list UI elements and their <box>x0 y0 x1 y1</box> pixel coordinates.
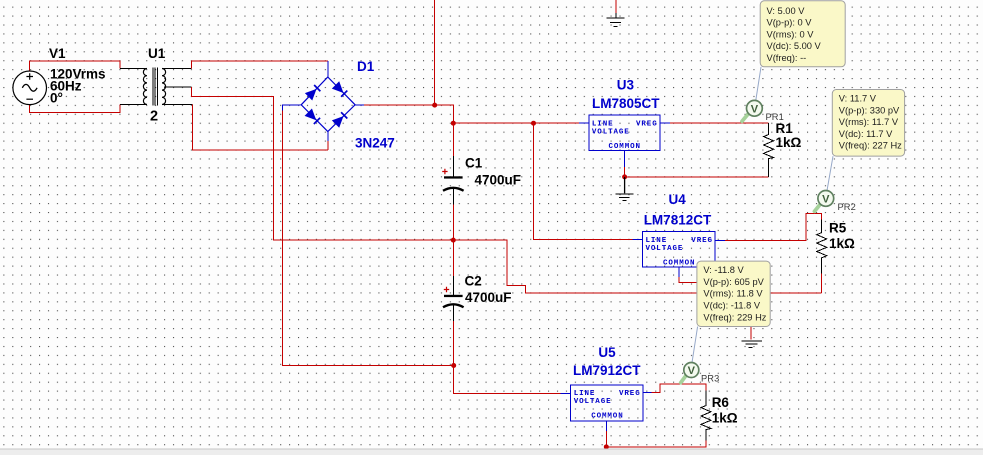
capacitor C2 <box>443 287 464 308</box>
wire U3 output to R1 top <box>660 122 670 124</box>
svg-text:COMMON: COMMON <box>663 260 695 268</box>
svg-text:4700uF: 4700uF <box>475 173 522 188</box>
junction at C1 top / U3 feed <box>451 121 456 126</box>
resistor R6 <box>701 391 711 441</box>
svg-text:1kΩ: 1kΩ <box>776 135 802 150</box>
transformer U1 <box>143 68 165 106</box>
junction at C1/C2 midpoint on common rail <box>451 238 456 243</box>
voltage regulator U5 LM7912CT <box>571 385 644 421</box>
svg-text:PR1: PR1 <box>766 112 784 122</box>
resistor R1 <box>764 123 774 177</box>
probe PR3 <box>681 363 699 383</box>
probe PR2 <box>815 191 834 212</box>
junction at U4 feed branch <box>531 121 536 126</box>
svg-text:V: 11.7 V: V: 11.7 V <box>839 94 877 104</box>
resistor R5 <box>817 220 827 274</box>
svg-text:LINE: LINE <box>646 237 668 245</box>
wire U4 common pin <box>678 267 680 277</box>
svg-text:VREG: VREG <box>691 237 713 245</box>
diode D1 bottom-right (points to right corner) <box>332 112 348 128</box>
svg-text:LM7912CT: LM7912CT <box>573 363 641 378</box>
wire top ground stem <box>615 0 617 13</box>
wire positive rail stub to top edge <box>434 0 436 105</box>
svg-text:V(rms): 0 V: V(rms): 0 V <box>767 29 815 39</box>
svg-text:VREG: VREG <box>636 120 658 128</box>
wire ground stem below PR3 measurement box <box>750 327 752 340</box>
svg-text:C2: C2 <box>465 273 482 288</box>
wire R5 bottom to common rail <box>821 274 823 293</box>
svg-text:4700uF: 4700uF <box>465 290 512 305</box>
svg-text:V(rms): 11.8 V: V(rms): 11.8 V <box>703 289 763 299</box>
wire C1 bottom lead <box>452 189 454 205</box>
wire bridge D1 positive output rail to C1 / U3 / U4 feed <box>355 104 364 106</box>
diode D1 bottom-left (points to bottom corner) <box>305 109 321 125</box>
svg-text:V1: V1 <box>49 46 66 61</box>
svg-text:V: -11.8 V: V: -11.8 V <box>703 265 744 275</box>
bridge rectifier D1 <box>301 77 355 132</box>
wire R6 bottom to U5 common junction <box>606 441 706 447</box>
svg-text:1kΩ: 1kΩ <box>712 410 738 425</box>
voltage regulator U4 LM7812CT <box>642 232 715 268</box>
junction at U5 common / R6 bottom <box>604 444 609 449</box>
svg-text:V(dc): -11.8 V: V(dc): -11.8 V <box>703 301 760 311</box>
wire V1 top to U1 primary <box>30 61 120 71</box>
wire C2 top lead <box>452 240 454 276</box>
junction at U3 common / R1 bottom <box>622 174 627 179</box>
svg-text:R6: R6 <box>712 395 730 410</box>
svg-text:R1: R1 <box>776 121 794 136</box>
wire U4 output to R5 top <box>715 239 725 241</box>
svg-text:V(p-p): 330 pV: V(p-p): 330 pV <box>839 105 900 115</box>
svg-text:R5: R5 <box>829 220 847 235</box>
AC source V1 <box>13 71 47 105</box>
svg-text:3N247: 3N247 <box>355 135 395 150</box>
connector from measurement box 2 to probe PR2 <box>827 156 833 190</box>
svg-text:V(p-p): 0 V: V(p-p): 0 V <box>767 18 813 28</box>
svg-text:PR2: PR2 <box>838 202 856 212</box>
svg-text:V: V <box>751 103 759 115</box>
junction at C2 bottom on negative rail <box>451 363 456 368</box>
measurement box PR2 readings <box>832 90 904 157</box>
svg-text:D1: D1 <box>357 59 375 74</box>
svg-text:V(freq): --: V(freq): -- <box>767 53 807 63</box>
wire U3 common pin <box>624 150 626 167</box>
wire C2 bottom lead <box>452 306 454 322</box>
wire U1 secondary top to bridge D1 top <box>162 68 192 70</box>
svg-text:V(dc): 5.00 V: V(dc): 5.00 V <box>767 41 822 51</box>
bottom scrollbar strip <box>0 449 983 455</box>
svg-text:V: V <box>688 365 696 377</box>
wire U5 output to R6 top <box>643 391 652 393</box>
diode D1 top-right (points to right corner) <box>332 81 348 97</box>
svg-text:U3: U3 <box>617 78 635 93</box>
svg-text:LINE: LINE <box>592 120 614 128</box>
svg-text:LINE: LINE <box>574 390 596 398</box>
ground at top edge <box>607 18 625 27</box>
svg-text:0°: 0° <box>50 90 63 105</box>
connector from measurement box 3 to probe PR3 <box>692 327 698 363</box>
probe PR1 <box>742 100 762 121</box>
diode D1 top-left (points to top corner) <box>305 84 321 100</box>
svg-text:V(freq): 227 Hz: V(freq): 227 Hz <box>839 141 902 151</box>
measurement box PR3 readings <box>697 261 770 326</box>
svg-text:2: 2 <box>150 109 158 125</box>
svg-text:VOLTAGE: VOLTAGE <box>592 128 630 136</box>
svg-text:V(p-p): 605 pV: V(p-p): 605 pV <box>703 277 764 287</box>
wire C1 top lead <box>452 123 454 156</box>
wire U4 feed from node at (533.5,123.2) down to U4 input <box>534 123 633 239</box>
wire R1 bottom to U3 common junction <box>625 176 769 178</box>
svg-text:V: V <box>822 194 830 206</box>
wire bridge D1 negative output to U5 input (negative rail) <box>283 105 301 111</box>
junction at bridge output and top stub <box>432 103 437 108</box>
voltage regulator U3 LM7805CT <box>589 115 660 151</box>
ground below U4 common rail <box>742 341 762 348</box>
svg-text:V(freq): 229 Hz: V(freq): 229 Hz <box>703 312 766 322</box>
svg-text:LM7805CT: LM7805CT <box>592 96 660 111</box>
svg-text:PR3: PR3 <box>701 374 719 384</box>
svg-text:VREG: VREG <box>619 390 641 398</box>
svg-text:U1: U1 <box>148 46 166 61</box>
svg-text:VOLTAGE: VOLTAGE <box>646 245 684 253</box>
ground at U3 common <box>624 177 626 193</box>
svg-text:COMMON: COMMON <box>591 412 623 420</box>
svg-text:COMMON: COMMON <box>609 143 641 151</box>
connector from measurement box 1 to probe PR1 <box>756 67 761 100</box>
svg-text:V(rms): 11.7 V: V(rms): 11.7 V <box>839 117 899 127</box>
wire U1 secondary bottom to bridge D1 bottom <box>162 104 192 106</box>
svg-text:C1: C1 <box>465 155 483 170</box>
svg-text:1kΩ: 1kΩ <box>829 236 855 251</box>
capacitor C1 <box>442 169 463 191</box>
wire U1 center tap to common rail (to C1/C2 midpoint and regulator commons / R5 bottom) <box>164 86 192 88</box>
svg-text:U5: U5 <box>598 345 616 360</box>
measurement box PR1 readings <box>760 1 845 67</box>
svg-text:V(dc): 11.7 V: V(dc): 11.7 V <box>839 129 893 139</box>
svg-text:VOLTAGE: VOLTAGE <box>574 398 612 406</box>
wire U5 common pin <box>605 421 607 431</box>
svg-text:LM7812CT: LM7812CT <box>644 213 712 228</box>
svg-text:U4: U4 <box>669 192 687 207</box>
svg-text:V: 5.00 V: V: 5.00 V <box>767 6 806 16</box>
wire V1 bottom to U1 primary <box>30 104 120 112</box>
